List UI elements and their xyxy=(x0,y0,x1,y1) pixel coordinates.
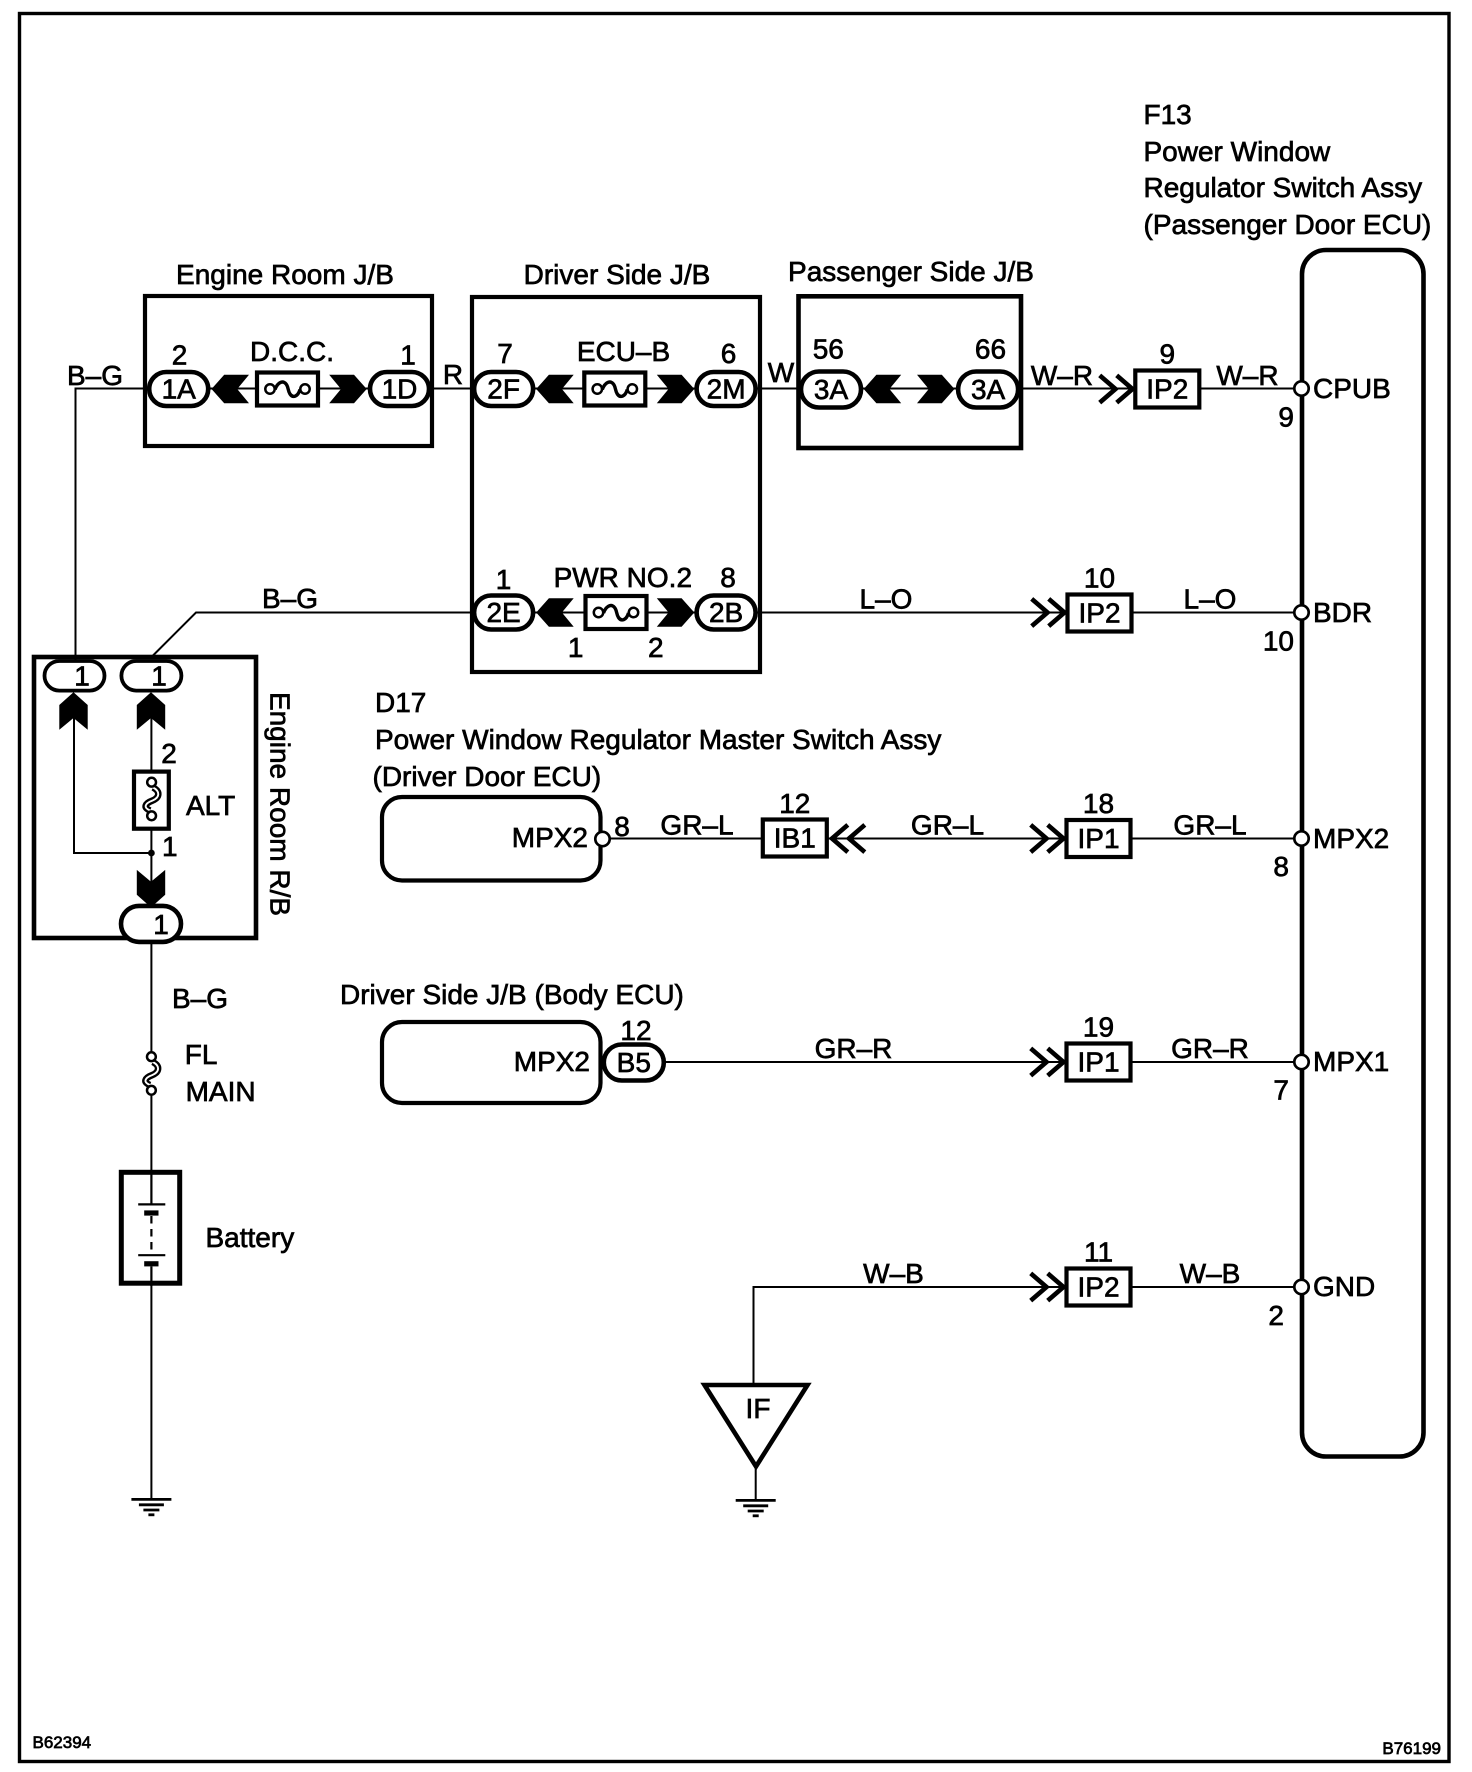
svg-text:F13: F13 xyxy=(1144,99,1192,130)
svg-text:56: 56 xyxy=(813,333,844,364)
svg-text:1: 1 xyxy=(151,661,167,692)
svg-text:MPX2: MPX2 xyxy=(1313,823,1389,854)
svg-text:MAIN: MAIN xyxy=(186,1076,256,1107)
svg-text:3A: 3A xyxy=(814,374,849,405)
svg-text:Passenger Side J/B: Passenger Side J/B xyxy=(788,256,1034,287)
svg-text:Power Window: Power Window xyxy=(1144,136,1332,167)
svg-text:GR–L: GR–L xyxy=(660,810,733,841)
svg-text:B–G: B–G xyxy=(172,983,228,1014)
svg-text:MPX2: MPX2 xyxy=(514,1046,590,1077)
svg-text:PWR NO.2: PWR NO.2 xyxy=(554,562,692,593)
svg-text:2E: 2E xyxy=(486,597,520,628)
svg-text:IP2: IP2 xyxy=(1078,598,1120,629)
svg-text:Driver Side J/B: Driver Side J/B xyxy=(524,259,711,290)
svg-text:CPUB: CPUB xyxy=(1313,373,1391,404)
svg-text:GR–R: GR–R xyxy=(815,1033,893,1064)
svg-text:GR–L: GR–L xyxy=(1173,810,1246,841)
svg-text:19: 19 xyxy=(1083,1012,1114,1043)
svg-text:66: 66 xyxy=(975,333,1006,364)
svg-text:W–B: W–B xyxy=(863,1258,924,1289)
svg-text:D17: D17 xyxy=(375,687,426,718)
svg-text:1D: 1D xyxy=(382,374,418,405)
svg-text:2M: 2M xyxy=(707,374,746,405)
svg-text:GND: GND xyxy=(1313,1271,1375,1302)
svg-text:Battery: Battery xyxy=(206,1222,295,1253)
svg-text:1: 1 xyxy=(496,564,512,595)
svg-text:BDR: BDR xyxy=(1313,597,1372,628)
svg-text:7: 7 xyxy=(1273,1075,1289,1106)
svg-text:IP1: IP1 xyxy=(1077,823,1119,854)
svg-text:12: 12 xyxy=(620,1015,651,1046)
svg-text:B76199: B76199 xyxy=(1382,1739,1441,1758)
svg-text:L–O: L–O xyxy=(1184,584,1237,615)
svg-text:1: 1 xyxy=(74,661,90,692)
svg-text:GR–R: GR–R xyxy=(1171,1033,1249,1064)
svg-text:1: 1 xyxy=(162,831,178,862)
svg-text:IP2: IP2 xyxy=(1146,374,1188,405)
svg-text:8: 8 xyxy=(614,811,630,842)
svg-text:IP1: IP1 xyxy=(1077,1047,1119,1078)
svg-text:18: 18 xyxy=(1083,788,1114,819)
svg-text:6: 6 xyxy=(721,338,737,369)
svg-text:W: W xyxy=(768,357,795,388)
svg-text:W–R: W–R xyxy=(1031,360,1093,391)
svg-text:ECU–B: ECU–B xyxy=(577,336,670,367)
svg-text:IP2: IP2 xyxy=(1077,1272,1119,1303)
svg-text:GR–L: GR–L xyxy=(911,810,984,841)
svg-text:Engine Room R/B: Engine Room R/B xyxy=(265,692,296,916)
svg-text:(Passenger Door ECU): (Passenger Door ECU) xyxy=(1144,209,1432,240)
svg-text:2: 2 xyxy=(648,632,664,663)
svg-text:W–R: W–R xyxy=(1216,360,1278,391)
svg-text:2: 2 xyxy=(161,738,177,769)
svg-text:2: 2 xyxy=(1268,1300,1284,1331)
svg-text:MPX2: MPX2 xyxy=(512,822,588,853)
svg-text:1: 1 xyxy=(153,909,169,940)
svg-text:L–O: L–O xyxy=(860,584,913,615)
svg-text:8: 8 xyxy=(720,562,736,593)
svg-text:11: 11 xyxy=(1084,1237,1113,1268)
svg-text:9: 9 xyxy=(1278,402,1294,433)
svg-text:B62394: B62394 xyxy=(33,1733,92,1752)
svg-text:Driver Side J/B (Body ECU): Driver Side J/B (Body ECU) xyxy=(340,979,684,1010)
svg-text:W–B: W–B xyxy=(1180,1258,1241,1289)
svg-text:1: 1 xyxy=(400,340,416,371)
svg-text:B5: B5 xyxy=(617,1047,651,1078)
svg-text:7: 7 xyxy=(497,338,513,369)
svg-text:Regulator Switch Assy: Regulator Switch Assy xyxy=(1144,172,1423,203)
svg-text:FL: FL xyxy=(185,1039,218,1070)
svg-text:9: 9 xyxy=(1160,339,1176,370)
svg-text:B–G: B–G xyxy=(262,583,318,614)
svg-text:12: 12 xyxy=(779,788,810,819)
svg-text:1: 1 xyxy=(568,632,584,663)
svg-text:IF: IF xyxy=(746,1393,771,1424)
svg-text:10: 10 xyxy=(1263,626,1294,657)
svg-text:8: 8 xyxy=(1273,851,1289,882)
svg-text:ALT: ALT xyxy=(186,790,235,821)
svg-text:3A: 3A xyxy=(971,374,1006,405)
svg-text:Power Window Regulator Master: Power Window Regulator Master Switch Ass… xyxy=(375,724,941,755)
svg-text:IB1: IB1 xyxy=(774,823,816,854)
svg-text:R: R xyxy=(443,359,463,390)
svg-text:Engine Room J/B: Engine Room J/B xyxy=(176,259,394,290)
svg-text:2: 2 xyxy=(172,340,188,371)
svg-text:MPX1: MPX1 xyxy=(1313,1046,1389,1077)
svg-text:2F: 2F xyxy=(487,374,520,405)
svg-text:10: 10 xyxy=(1084,563,1115,594)
svg-text:2B: 2B xyxy=(709,597,743,628)
svg-text:1A: 1A xyxy=(162,374,197,405)
svg-text:(Driver Door ECU): (Driver Door ECU) xyxy=(373,761,602,792)
svg-text:D.C.C.: D.C.C. xyxy=(250,336,334,367)
svg-text:B–G: B–G xyxy=(67,360,123,391)
